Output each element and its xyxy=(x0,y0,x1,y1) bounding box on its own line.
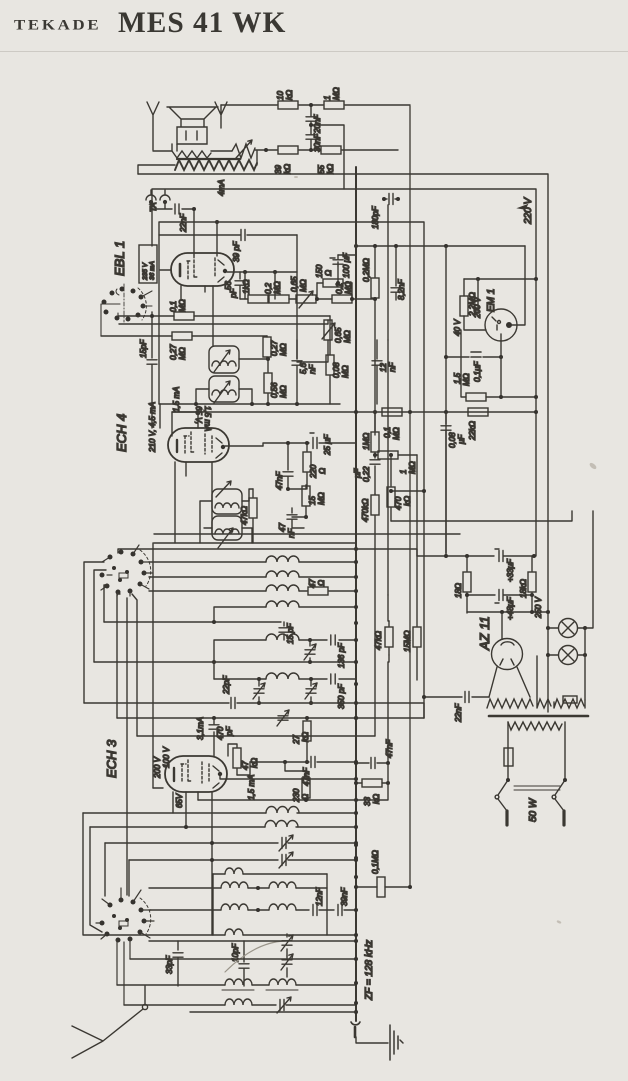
tube ECH4 xyxy=(168,428,229,462)
svg-text:1: 1 xyxy=(399,470,408,474)
wire y888 xyxy=(149,887,221,889)
svg-text:MΩ: MΩ xyxy=(392,427,401,440)
speaker LS xyxy=(167,107,218,144)
coil L3 xyxy=(266,585,307,591)
wire inner frame xyxy=(152,189,536,556)
svg-text:Ω: Ω xyxy=(317,580,326,586)
capacitor 39pF xyxy=(241,230,245,241)
capacitor 20nF xyxy=(306,105,316,134)
resistor 1MO agc xyxy=(371,412,379,458)
electrolytic +33uF xyxy=(495,549,534,562)
wire y827 xyxy=(90,826,265,828)
capacitor 47nF osc2 xyxy=(287,508,304,528)
svg-text:220 V: 220 V xyxy=(523,197,534,225)
trimmer y718 xyxy=(277,710,289,726)
stair x90 coilB xyxy=(90,827,102,932)
svg-text:0,22: 0,22 xyxy=(362,466,371,482)
lead x212 long xyxy=(211,792,213,935)
svg-text:MΩ: MΩ xyxy=(279,385,288,398)
svg-text:4mA: 4mA xyxy=(217,180,226,196)
resistor 1MO xyxy=(324,101,410,109)
svg-text:47nF: 47nF xyxy=(275,471,284,490)
resistor 470kO nr2 xyxy=(371,494,379,534)
node 48uF xyxy=(465,593,534,597)
tube AZ11 xyxy=(489,613,530,697)
wire AVC y246 xyxy=(356,245,525,247)
svg-text:1MΩ: 1MΩ xyxy=(362,433,371,450)
antenna xyxy=(72,1009,143,1058)
switch mains xyxy=(498,722,565,795)
wire y985 xyxy=(117,984,225,986)
svg-text:nF: nF xyxy=(388,362,397,372)
electrolytic 100uF xyxy=(330,255,343,266)
capacitor 22nF (pickup) xyxy=(151,202,194,214)
svg-text:18kΩ: 18kΩ xyxy=(519,579,528,598)
wire stubs row xyxy=(245,272,275,299)
svg-text:1kΩ: 1kΩ xyxy=(242,279,251,294)
svg-text:0,27: 0,27 xyxy=(169,344,178,360)
node caps xyxy=(309,103,313,152)
capacitor 350pF xyxy=(331,674,356,684)
capacitor 33pF xyxy=(173,941,183,986)
tube EM1 xyxy=(485,309,517,357)
resistor 220O xyxy=(303,443,311,489)
wire y543 xyxy=(154,542,356,544)
resistor 22kO row xyxy=(468,408,488,416)
svg-text:3,1mA: 3,1mA xyxy=(196,717,205,740)
svg-text:+33μF: +33μF xyxy=(506,558,515,582)
nodes B+ xyxy=(444,554,536,558)
nodes agc xyxy=(373,410,393,457)
resistor 0,27MO xyxy=(101,332,267,340)
wire y959 xyxy=(130,958,356,960)
wire 470k top xyxy=(390,455,392,486)
node grid xyxy=(150,314,154,318)
svg-text:0,08: 0,08 xyxy=(332,362,341,378)
capacitor 0,08uF xyxy=(441,412,451,556)
svg-text:kΩ: kΩ xyxy=(326,164,335,174)
wire 47k ends xyxy=(388,595,389,763)
node za xyxy=(354,885,412,889)
resistor 0,1MO za xyxy=(356,877,410,897)
resistor 47kO osc xyxy=(249,489,257,543)
trimmer L6 left xyxy=(253,679,265,703)
wire row y679 xyxy=(214,678,266,680)
wire row y718 xyxy=(117,717,424,719)
primary winding xyxy=(508,722,562,748)
wire row y324 xyxy=(119,323,328,325)
bus x356 xyxy=(355,167,357,1021)
svg-text:36 mA: 36 mA xyxy=(149,261,156,280)
svg-text:15 pF: 15 pF xyxy=(286,622,295,644)
nodes ech3 bus xyxy=(354,716,358,802)
svg-text:200 V: 200 V xyxy=(153,756,162,779)
wire pot to divider xyxy=(255,149,277,151)
svg-text:0,08: 0,08 xyxy=(448,432,457,448)
svg-text:kΩ: kΩ xyxy=(283,164,292,174)
resistor 15MO em xyxy=(413,455,421,680)
svg-text:25 μF: 25 μF xyxy=(323,433,332,456)
resistor 0,2MO xyxy=(269,295,296,303)
svg-text:22nF: 22nF xyxy=(454,703,463,723)
svg-text:47nF: 47nF xyxy=(385,739,394,758)
voltage box 235V 36mA xyxy=(139,245,157,283)
node 470pF xyxy=(212,716,216,720)
capacitor 22nF ps xyxy=(424,692,489,703)
svg-text:MΩ: MΩ xyxy=(343,330,352,343)
tube leads EBL1 xyxy=(181,286,213,346)
svg-text:MΩ: MΩ xyxy=(279,343,288,356)
svg-text:180pF: 180pF xyxy=(371,205,380,229)
mains arrow xyxy=(519,205,527,209)
wire x388 drop xyxy=(356,763,388,800)
resistor 0,56MO xyxy=(264,359,272,404)
wire sg3 xyxy=(237,762,250,775)
potentiometer 0,65MO nr2 xyxy=(297,320,335,362)
field coil 4mA (thick zigzag) xyxy=(175,159,257,170)
wire y1012 xyxy=(190,1011,356,1013)
capacitor 47nF an3 xyxy=(356,758,388,769)
wire shield frame y222 xyxy=(159,222,424,718)
svg-text:5,6: 5,6 xyxy=(299,362,308,374)
svg-text:15MΩ: 15MΩ xyxy=(403,630,412,652)
wire y397 xyxy=(501,396,536,398)
capacitor 470pF xyxy=(209,718,219,756)
svg-text:33pF: 33pF xyxy=(165,955,174,974)
svg-text:27: 27 xyxy=(292,735,301,745)
heater winding pilot xyxy=(554,696,585,708)
capacitor 47nF sg xyxy=(283,443,293,489)
osc coil A xyxy=(266,807,356,814)
nodes osc rows xyxy=(184,777,358,862)
svg-text:0,56: 0,56 xyxy=(270,382,279,398)
coil L5 xyxy=(266,634,327,640)
electrolytic +48uF xyxy=(467,590,532,604)
node y662 xyxy=(308,660,312,664)
wire AF top frame xyxy=(138,174,548,712)
svg-text:nF: nF xyxy=(308,364,317,374)
node y622 xyxy=(212,620,216,624)
svg-text:22nF: 22nF xyxy=(179,213,188,233)
wire grid1 drop xyxy=(193,209,195,255)
left web staircase xyxy=(84,562,137,736)
resistor 0,1MO (AF grid) xyxy=(118,312,330,320)
resistor 0,27MO nr2 xyxy=(263,336,271,359)
capacitor 47nF sg3 xyxy=(250,757,356,768)
wire y491 xyxy=(391,490,424,492)
nodes anode row xyxy=(243,270,277,274)
capacitor 30nF xyxy=(306,135,316,150)
node lamps xyxy=(546,626,587,657)
speaker mount right prong xyxy=(215,102,227,128)
capacitor 39nF xyxy=(338,905,356,916)
wire grid coil row1 xyxy=(149,561,266,563)
core marks P xyxy=(222,989,298,991)
wire y534 xyxy=(154,533,460,535)
svg-text:+48μF: +48μF xyxy=(506,596,515,620)
wire cans ECH4 xyxy=(200,501,252,543)
svg-text:kΩ: kΩ xyxy=(372,794,381,804)
capacitor 180pF xyxy=(384,194,398,205)
stair drops to osc socket xyxy=(105,843,129,896)
svg-text:470: 470 xyxy=(216,726,225,740)
wire y412 xyxy=(356,411,536,413)
coil L4 xyxy=(266,601,356,607)
capacitor 136pF xyxy=(331,635,356,645)
wire y521 xyxy=(391,511,572,521)
wire EM1 anode xyxy=(512,246,525,325)
trimmer L6 right xyxy=(305,679,317,703)
capacitor 22pF xyxy=(231,698,235,709)
svg-text:MΩ: MΩ xyxy=(299,279,308,292)
osc can 1 ECH4 xyxy=(212,481,242,514)
resistor 0,1MO row xyxy=(382,408,402,416)
coil L2 xyxy=(266,571,356,577)
svg-text:200 V: 200 V xyxy=(473,296,482,319)
capacitor 5,6nF xyxy=(292,340,302,404)
wire g2 drop xyxy=(216,222,218,256)
wire row y622 xyxy=(104,621,281,623)
resistor 39kO xyxy=(278,146,320,154)
resistor 0,1MO (cathode) xyxy=(332,295,375,303)
svg-text:8,2nF: 8,2nF xyxy=(397,278,406,300)
anode dot ECH3 xyxy=(218,772,222,776)
svg-text:39: 39 xyxy=(274,165,283,174)
svg-text:22kΩ: 22kΩ xyxy=(468,421,477,441)
node y491b xyxy=(389,489,393,493)
stair x83 down xyxy=(83,813,213,935)
svg-text:20nF: 20nF xyxy=(313,114,322,134)
tube ECH4 leads xyxy=(175,446,263,543)
svg-text:39 pF: 39 pF xyxy=(232,240,241,262)
svg-text:136 pF: 136 pF xyxy=(337,642,346,668)
wire 47k top xyxy=(249,489,253,501)
wire row y662 xyxy=(94,661,356,663)
antenna plug xyxy=(142,986,147,1010)
svg-text:100 μF: 100 μF xyxy=(342,252,351,278)
node EM1 cath xyxy=(444,355,503,359)
svg-text:1,5: 1,5 xyxy=(453,372,462,384)
coil P2 xyxy=(269,979,356,985)
node 230 xyxy=(283,760,287,764)
socket EBL1 arc xyxy=(138,288,146,320)
resistor 1MO h xyxy=(375,451,417,459)
wire x297 drop xyxy=(296,235,298,359)
wire EM1 grid xyxy=(477,279,479,313)
heater winding small xyxy=(537,656,551,708)
title block xyxy=(13,0,15,1)
wire row y640 xyxy=(214,640,266,679)
coil P3 xyxy=(225,999,276,1005)
svg-text:1,5 mA: 1,5 mA xyxy=(172,387,181,412)
osc coil B xyxy=(265,821,356,828)
svg-text:MΩ: MΩ xyxy=(178,347,187,360)
svg-text:55: 55 xyxy=(317,165,326,174)
capacitor 12nF xyxy=(372,340,382,404)
wire y549 xyxy=(118,549,417,556)
wire grid top ECH4 xyxy=(172,412,198,436)
node 180pF xyxy=(382,197,400,201)
socket mixer stubs xyxy=(101,545,152,596)
svg-text:250 V: 250 V xyxy=(534,596,543,619)
lamp 2 xyxy=(548,646,585,665)
wire y703 xyxy=(84,703,424,718)
svg-text:220: 220 xyxy=(309,464,318,479)
bandfilter frame xyxy=(213,874,327,935)
svg-text:65V: 65V xyxy=(175,793,184,808)
coil L1 xyxy=(266,556,356,562)
svg-text:kΩ: kΩ xyxy=(285,90,294,100)
heater winding AZ xyxy=(487,699,533,708)
resistor 1kO xyxy=(248,295,269,303)
node y491 xyxy=(422,489,426,493)
nodes sg xyxy=(286,441,309,445)
svg-text:MΩ: MΩ xyxy=(462,373,471,386)
svg-text:210 V, 4,5 mA: 210 V, 4,5 mA xyxy=(148,402,157,453)
wire row y735 xyxy=(137,735,375,737)
scan smudge right xyxy=(294,176,597,924)
svg-text:EBL 1: EBL 1 xyxy=(112,241,127,276)
svg-text:0,2: 0,2 xyxy=(264,282,273,294)
coil O2 xyxy=(221,882,269,888)
svg-text:33: 33 xyxy=(363,797,372,806)
nodes bus bottom xyxy=(354,843,358,1014)
resistor 33kO xyxy=(356,779,388,787)
node 8,2 xyxy=(373,244,398,301)
svg-text:EM 1: EM 1 xyxy=(486,289,497,312)
bus x414 xyxy=(409,106,411,887)
fuse xyxy=(504,748,513,780)
electrolytic 25uF xyxy=(307,433,356,449)
wire y860 trimmer xyxy=(129,852,356,868)
resistor 47kO g xyxy=(228,744,241,775)
wire coil row4 xyxy=(214,607,266,622)
wire left drop ECH4 xyxy=(153,404,160,788)
socket mixer xyxy=(100,550,147,595)
svg-text:15pF: 15pF xyxy=(139,339,148,358)
capacitor 15pF ant xyxy=(279,622,289,640)
nodes osc xyxy=(286,487,308,519)
resistor 47kO agc2 xyxy=(385,621,393,655)
resistor 150 O xyxy=(317,279,352,287)
wire cath down xyxy=(500,357,502,397)
resistor 18 O xyxy=(463,556,471,613)
resistor 230O xyxy=(302,771,310,800)
node y612 xyxy=(500,610,550,614)
trimmer P xyxy=(277,997,356,1013)
svg-text:MΩ: MΩ xyxy=(317,492,326,505)
svg-text:18Ω: 18Ω xyxy=(454,583,463,598)
trimmer b1 xyxy=(281,934,293,956)
wire 230 top xyxy=(285,762,306,771)
node 27k xyxy=(305,716,309,764)
plug pins xyxy=(507,811,564,825)
svg-text:ECH 3: ECH 3 xyxy=(104,739,119,778)
node coil O23 xyxy=(256,886,260,890)
node 22nF xyxy=(422,695,426,699)
node L5 xyxy=(308,638,312,642)
wire y415 row xyxy=(172,411,356,413)
svg-text:470kΩ: 470kΩ xyxy=(361,499,370,522)
coil O5 xyxy=(269,904,309,910)
svg-text:235 V: 235 V xyxy=(142,262,149,281)
node EM1 top xyxy=(476,277,538,281)
nodes L6 xyxy=(257,677,313,705)
wire sg row y441 xyxy=(263,443,307,446)
wire y910 xyxy=(150,909,221,911)
svg-text:μF: μF xyxy=(457,434,466,445)
nodes y404 xyxy=(194,402,299,406)
wire row y788 xyxy=(153,787,163,789)
wire bias chain y299 xyxy=(240,298,248,300)
node 47nF an3 xyxy=(386,761,390,765)
capacitor 0,1uF EM1 xyxy=(446,352,501,357)
resistor 55kO xyxy=(321,146,398,154)
IF can 1 xyxy=(209,346,239,373)
EM1 box xyxy=(464,278,536,280)
wire y813 xyxy=(83,812,266,814)
node 33k xyxy=(354,781,390,785)
node divider left xyxy=(264,148,268,152)
capacitor 0,22uF xyxy=(370,460,380,494)
socket mixer arc xyxy=(119,550,151,586)
resistor 10kO xyxy=(221,101,323,109)
node y397 xyxy=(499,395,538,399)
node y125 xyxy=(309,123,313,127)
anode dot EBL1 xyxy=(223,269,227,273)
tube ECH3 xyxy=(165,756,227,792)
wire y125 branch xyxy=(311,125,344,189)
wire B+ y556 xyxy=(417,555,494,557)
svg-text:10: 10 xyxy=(276,91,285,100)
anode dot ECH4 xyxy=(221,445,225,449)
svg-text:0,1μF: 0,1μF xyxy=(473,360,482,382)
wire to ground xyxy=(356,1037,388,1043)
node y935 xyxy=(354,933,358,937)
coil O3 xyxy=(269,882,327,888)
node g1 xyxy=(192,207,196,211)
trimmer L5 xyxy=(304,640,316,662)
plug pin stems xyxy=(495,795,564,811)
svg-text:47: 47 xyxy=(308,579,317,588)
svg-text:150: 150 xyxy=(315,264,324,278)
svg-text:12nF: 12nF xyxy=(315,887,324,906)
tube EBL1 xyxy=(160,253,234,286)
wire osc mid xyxy=(288,489,306,517)
bus x446 xyxy=(445,246,447,553)
nodes y412 xyxy=(354,410,538,414)
capacitor 12nF xyxy=(313,905,334,916)
socket osc arc xyxy=(119,898,151,934)
wire y941 xyxy=(149,940,356,942)
pencil arc xyxy=(225,941,285,972)
wire y1005 xyxy=(124,1004,225,1006)
resistor 0,08MO xyxy=(326,316,334,404)
wire IF link xyxy=(196,359,267,404)
resistor 18kO xyxy=(528,556,536,612)
svg-text:350 pF: 350 pF xyxy=(337,683,346,709)
svg-text:kΩ: kΩ xyxy=(301,732,310,742)
svg-text:MΩ: MΩ xyxy=(332,87,341,100)
lamp 1 xyxy=(548,619,585,638)
socket EBL1 xyxy=(102,287,146,322)
nodes bus mid xyxy=(354,547,358,720)
socket osc xyxy=(100,898,147,943)
resistor 47 O xyxy=(308,587,356,595)
ground xyxy=(390,1025,403,1060)
node cathode xyxy=(315,281,354,301)
potentiometer (tone) xyxy=(232,140,255,158)
